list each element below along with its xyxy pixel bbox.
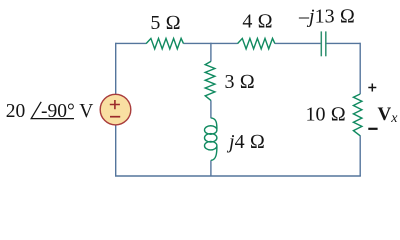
inductor L j4 ohm <box>205 118 217 160</box>
wire capacitor to top-right corner <box>326 42 360 44</box>
svg-text:Vx: Vx <box>378 104 399 126</box>
wire between 4ohm and capacitor <box>275 42 321 44</box>
minus sign of Vx <box>368 128 377 130</box>
wire middle vertical top <box>210 43 212 62</box>
svg-text:5 Ω: 5 Ω <box>150 12 180 34</box>
resistor R 5 ohm <box>146 38 183 49</box>
svg-text:V: V <box>79 101 93 122</box>
voltage source plus sign <box>110 100 120 109</box>
capacitor C -j13 ohm plate left <box>320 31 322 56</box>
voltage source VS circle <box>100 94 131 125</box>
resistor R 3 ohm <box>205 61 215 100</box>
svg-text:–j13 Ω: –j13 Ω <box>298 6 355 28</box>
svg-text:3 Ω: 3 Ω <box>225 71 255 93</box>
wire left vertical below source <box>115 125 117 176</box>
wire middle vertical between 3ohm and inductor <box>210 100 212 118</box>
wire right vertical above 10ohm <box>359 43 361 94</box>
wire left vertical above source <box>115 43 117 95</box>
svg-text:-90°: -90° <box>41 101 75 122</box>
resistor R 10 ohm <box>353 94 362 136</box>
svg-text:j4 Ω: j4 Ω <box>226 131 265 153</box>
resistor R 4 ohm <box>238 38 275 49</box>
wire bottom <box>115 175 361 177</box>
plus sign of Vx <box>368 84 376 92</box>
svg-text:4 Ω: 4 Ω <box>242 11 272 33</box>
voltage source minus sign <box>110 116 120 118</box>
wire right vertical below 10ohm <box>359 136 361 177</box>
capacitor C -j13 ohm plate right <box>325 31 327 56</box>
wire middle vertical bottom <box>210 160 212 176</box>
wire between 5ohm and 4ohm <box>184 42 238 44</box>
angle symbol stroke <box>31 102 74 119</box>
wire top-left segment <box>116 42 146 44</box>
svg-text:10 Ω: 10 Ω <box>306 104 346 126</box>
svg-text:20: 20 <box>6 101 26 122</box>
